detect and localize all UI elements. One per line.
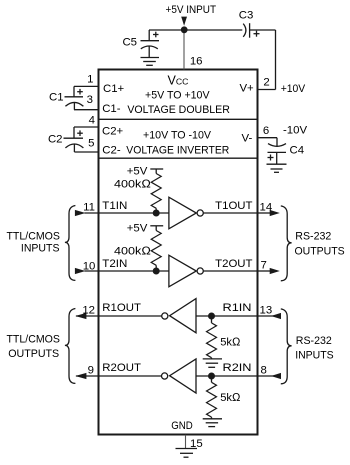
svg-text:VCC: VCC — [168, 73, 189, 87]
svg-text:C2+: C2+ — [102, 126, 124, 138]
svg-text:1: 1 — [87, 74, 93, 86]
svg-text:5: 5 — [88, 138, 94, 150]
svg-text:INPUTS: INPUTS — [21, 242, 60, 254]
svg-text:R2IN: R2IN — [223, 362, 252, 374]
svg-text:V+: V+ — [239, 83, 254, 95]
svg-text:C5: C5 — [122, 37, 137, 49]
svg-text:R2OUT: R2OUT — [102, 362, 141, 374]
svg-text:5kΩ: 5kΩ — [220, 392, 241, 404]
svg-text:7: 7 — [261, 260, 267, 272]
svg-text:C1-: C1- — [102, 103, 121, 115]
svg-text:OUTPUTS: OUTPUTS — [295, 245, 346, 257]
svg-text:C4: C4 — [290, 145, 305, 157]
svg-text:400kΩ: 400kΩ — [114, 245, 151, 257]
svg-text:11: 11 — [83, 202, 95, 214]
svg-text:C2: C2 — [48, 133, 63, 145]
svg-text:T2OUT: T2OUT — [215, 258, 252, 270]
svg-text:9: 9 — [88, 365, 94, 377]
svg-text:+5V: +5V — [127, 166, 148, 178]
svg-text:14: 14 — [260, 202, 273, 214]
svg-text:TTL/CMOS: TTL/CMOS — [6, 231, 60, 243]
svg-text:6: 6 — [263, 125, 269, 137]
svg-text:+5V TO +10V: +5V TO +10V — [145, 90, 210, 102]
svg-text:C3: C3 — [239, 10, 254, 22]
svg-text:+10V TO -10V: +10V TO -10V — [143, 130, 211, 142]
svg-text:R1IN: R1IN — [223, 302, 252, 314]
svg-text:+5V INPUT: +5V INPUT — [166, 4, 217, 16]
svg-text:13: 13 — [260, 305, 273, 317]
svg-text:RS-232: RS-232 — [295, 230, 331, 242]
svg-text:T1OUT: T1OUT — [215, 200, 252, 212]
svg-text:T1IN: T1IN — [102, 200, 127, 212]
svg-text:TTL/CMOS: TTL/CMOS — [6, 333, 60, 345]
svg-text:8: 8 — [261, 365, 267, 377]
svg-text:VOLTAGE INVERTER: VOLTAGE INVERTER — [126, 145, 229, 157]
svg-text:OUTPUTS: OUTPUTS — [8, 348, 59, 360]
svg-text:GND: GND — [171, 420, 193, 432]
svg-text:V-: V- — [242, 132, 253, 144]
svg-text:16: 16 — [190, 56, 203, 68]
svg-text:15: 15 — [190, 438, 203, 450]
svg-text:C2-: C2- — [102, 145, 121, 157]
svg-text:INPUTS: INPUTS — [295, 349, 334, 361]
svg-text:3: 3 — [87, 94, 93, 106]
svg-text:4: 4 — [89, 114, 95, 126]
svg-text:T2IN: T2IN — [102, 258, 127, 270]
svg-text:10: 10 — [83, 260, 96, 272]
svg-text:RS-232: RS-232 — [296, 335, 332, 347]
svg-text:C1+: C1+ — [103, 83, 125, 95]
svg-text:-10V: -10V — [283, 125, 307, 137]
svg-text:400kΩ: 400kΩ — [114, 178, 151, 190]
svg-text:5kΩ: 5kΩ — [220, 336, 241, 348]
svg-text:12: 12 — [82, 305, 95, 317]
svg-text:+5V: +5V — [127, 223, 148, 235]
svg-text:+10V: +10V — [281, 83, 306, 95]
svg-text:2: 2 — [263, 77, 269, 89]
svg-text:R1OUT: R1OUT — [102, 302, 141, 314]
svg-text:VOLTAGE DOUBLER: VOLTAGE DOUBLER — [127, 104, 230, 116]
svg-text:C1: C1 — [49, 91, 64, 103]
